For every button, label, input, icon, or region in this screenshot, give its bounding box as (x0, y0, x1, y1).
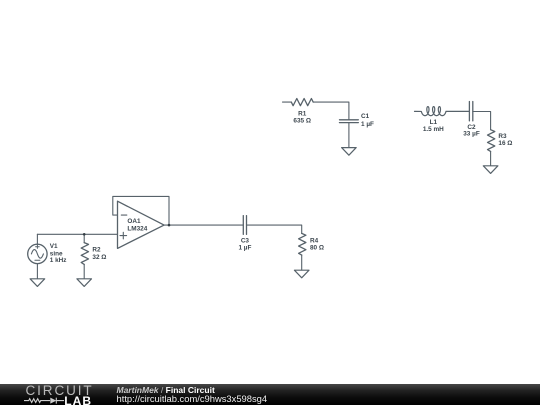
capacitor C3 (243, 216, 246, 235)
wire L1 left stub & inductor L1 (415, 107, 470, 116)
wire input node to op-amp (37, 233, 117, 235)
op-amp OA1 (118, 201, 165, 248)
wire R3 to ground (490, 151, 492, 165)
voltage source V1 (28, 244, 47, 263)
wire R1 to C1 (313, 102, 349, 119)
svg-text:L1: L1 (430, 119, 438, 126)
svg-text:LM324: LM324 (127, 226, 147, 233)
junction node A (83, 233, 86, 236)
svg-text:1.5 mH: 1.5 mH (423, 126, 444, 133)
ground (C1) (342, 148, 357, 156)
wire R4 to ground (301, 255, 303, 270)
svg-text:R2: R2 (92, 247, 101, 254)
resistor R3 (488, 130, 495, 152)
footer title (117, 385, 215, 395)
svg-text:16 Ω: 16 Ω (498, 140, 512, 147)
capacitor C1 (340, 120, 359, 123)
ground (R3) (483, 166, 498, 174)
resistor R2 (81, 243, 88, 265)
ground (V1) (30, 279, 45, 287)
svg-text:OA1: OA1 (127, 218, 141, 225)
wire V1 to node (36, 234, 38, 244)
svg-text:635 Ω: 635 Ω (293, 117, 311, 124)
CircuitLab logo circuit glyph + LAB (0, 384, 116, 405)
svg-text:80 Ω: 80 Ω (310, 244, 324, 251)
svg-text:V1: V1 (50, 243, 58, 250)
junction output node (168, 224, 171, 227)
ground (R2) (77, 279, 92, 287)
svg-text:1 µF: 1 µF (361, 121, 374, 128)
svg-text:R3: R3 (498, 133, 507, 140)
wire C3 to R4 (247, 225, 302, 233)
wire R1 left stub (283, 101, 292, 103)
svg-text:C3: C3 (241, 237, 250, 244)
footer bar (0, 384, 540, 405)
wire node to R2 (83, 234, 85, 242)
resistor R4 (299, 233, 306, 255)
wire V1 to ground (36, 264, 38, 279)
wire feedback loop (113, 196, 169, 225)
svg-text:C1: C1 (361, 113, 370, 120)
wire C2 to R3 (473, 112, 491, 130)
svg-text:1 µF: 1 µF (238, 244, 251, 251)
svg-text:R4: R4 (310, 237, 319, 244)
ground (R4) (294, 270, 309, 278)
CircuitLab logo wordmark (26, 383, 94, 398)
capacitor C2 (469, 102, 472, 121)
svg-text:LAB: LAB (64, 394, 92, 405)
wire output to C3 (164, 224, 243, 226)
svg-text:32 Ω: 32 Ω (92, 254, 106, 261)
resistor R1 (291, 99, 313, 106)
wire C1 to ground (348, 123, 350, 147)
footer url (117, 393, 268, 404)
svg-text:33 µF: 33 µF (463, 131, 480, 138)
svg-text:1 kHz: 1 kHz (50, 257, 67, 264)
wire R2 to ground (83, 264, 85, 278)
